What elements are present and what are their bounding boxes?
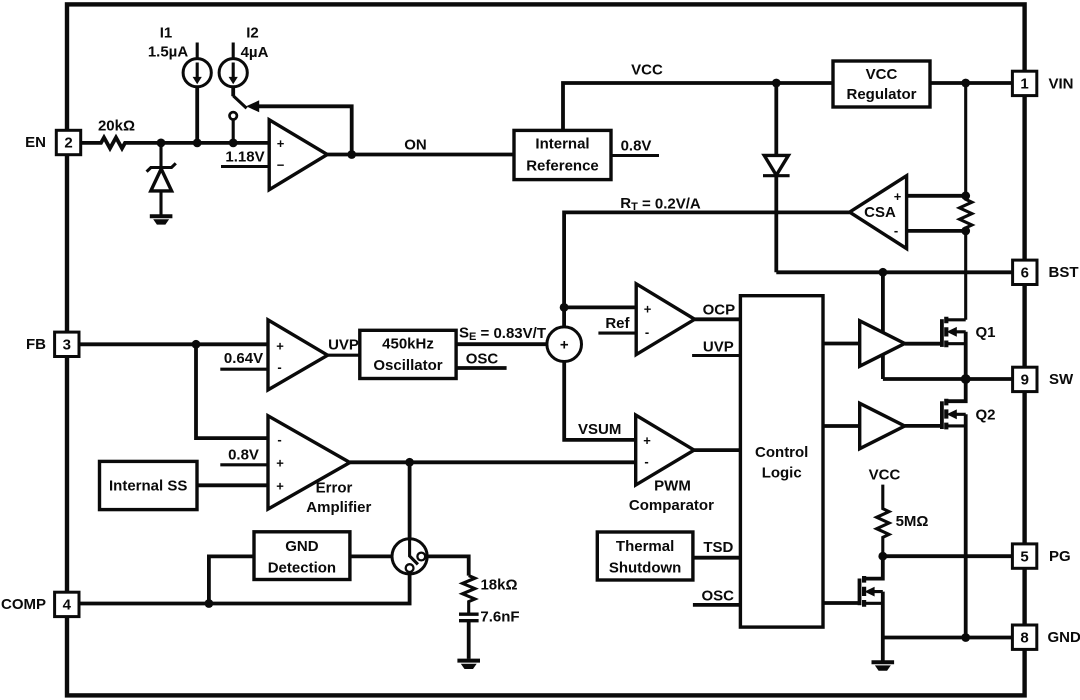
svg-text:-: - [277,360,281,375]
wire: bootstrap BST-SW [881,272,885,379]
svg-text:Regulator: Regulator [846,86,916,103]
node: GND [961,633,970,642]
svg-text:VCC: VCC [869,467,901,484]
svg-text:Logic: Logic [762,465,802,482]
sense resistor and VIN-Q1 drain rail [960,83,972,320]
wire: OCP output [695,317,741,321]
wire: SW rail [883,377,1013,381]
node: COMP branch [405,458,414,467]
Control Logic block [740,296,823,627]
capacitor 7.6nF [459,614,479,621]
node: sense bottom [961,227,970,236]
node: sense branch [961,79,970,88]
svg-text:Shutdown: Shutdown [609,560,681,577]
Thermal Shutdown block [597,532,693,580]
wire: UVP comp to oscillator [328,354,360,357]
svg-text:0.8V: 0.8V [621,138,652,155]
pin 3 FB [55,332,79,356]
svg-text:−: − [277,158,285,173]
svg-text:5: 5 [1020,548,1028,565]
switch (EN hysteresis) [233,96,246,109]
svg-text:+: + [560,336,569,353]
svg-text:EN: EN [25,134,46,151]
wire: comparator feedback [258,106,352,154]
svg-text:+: + [643,433,651,448]
ground (RC) [457,659,480,663]
svg-text:7.6nF: 7.6nF [480,609,519,626]
svg-text:18kΩ: 18kΩ [480,576,517,593]
svg-text:Detection: Detection [268,560,336,577]
wire: to OCP + input [564,305,636,309]
Internal SS block [100,461,198,509]
error amplifier [268,416,350,509]
current source I1 [196,43,199,59]
wire: EN input net [81,138,270,149]
svg-text:SW: SW [1049,371,1074,388]
450kHz Oscillator block [360,330,456,378]
CSA current sense amplifier [850,176,907,249]
svg-text:+: + [894,189,902,204]
wire: error amp output to switch [408,462,412,539]
node: SW [961,374,971,384]
ground (zener) [150,214,173,218]
OCP comparator [636,284,695,355]
svg-text:-: - [644,454,648,469]
svg-text:GND: GND [1048,629,1080,646]
wire: PG rail [883,554,1013,558]
svg-text:4: 4 [63,597,72,614]
svg-text:Reference: Reference [526,158,599,175]
node: bootstrap branch [879,268,888,277]
svg-text:OSC: OSC [701,588,734,605]
svg-text:I1: I1 [160,25,173,42]
arrowhead (hysteresis feedback) [246,100,259,112]
svg-text:BST: BST [1049,264,1079,281]
wire: cap to ground [467,621,471,659]
svg-text:+: + [277,136,285,151]
svg-text:Control: Control [755,444,808,461]
wire: control to driver 1 [823,342,860,346]
svg-text:Error: Error [316,480,353,497]
pin 5 PG [1012,544,1036,568]
svg-text:SE = 0.83V/T: SE = 0.83V/T [459,325,546,343]
gate driver 1 [860,321,905,366]
svg-text:GND: GND [285,538,319,555]
transistor Q3 (PG pulldown) [860,556,883,637]
transistor Q2 [942,379,996,638]
node: comparator output [347,150,356,159]
wire: control to driver 2 [823,424,860,428]
pin 2 EN [56,130,80,154]
svg-text:ON: ON [404,137,427,154]
svg-text:FB: FB [26,336,46,353]
wire: switch to RC [427,556,469,575]
zener diode [159,143,162,167]
node: I2 tap [229,139,238,148]
svg-text:OCP: OCP [703,302,736,319]
svg-text:+: + [276,478,284,493]
wire: OSC into control [693,603,741,607]
svg-text:450kHz: 450kHz [382,336,434,353]
wire: FB to error amp inverting [196,344,268,438]
svg-text:Q2: Q2 [976,407,996,424]
wire: driver 1 to Q1 gate [905,342,942,346]
svg-text:20kΩ: 20kΩ [98,118,135,135]
svg-text:RT = 0.2V/A: RT = 0.2V/A [620,195,701,213]
svg-text:Amplifier: Amplifier [306,499,371,516]
svg-text:9: 9 [1021,372,1029,389]
wire: PWM output [694,448,740,452]
svg-text:0.64V: 0.64V [224,350,263,367]
svg-text:I2: I2 [246,25,259,42]
node: OCP branch [560,303,569,312]
wire: GND detection to switch [350,555,392,559]
node: FB branch [192,340,201,349]
pin 4 COMP [55,592,79,616]
wire: BST rail [776,270,1012,274]
svg-text:1: 1 [1020,76,1028,93]
wire: control to Q3 gate [823,601,860,605]
wire: VCC net [563,83,1013,130]
node: PG [878,552,887,561]
svg-text:5MΩ: 5MΩ [896,513,929,530]
ground (power) [872,660,895,664]
svg-text:Comparator: Comparator [629,497,714,514]
svg-text:PG: PG [1049,548,1071,565]
wire: OSC stub [456,366,507,370]
GND Detection block [254,532,350,580]
svg-text:Q1: Q1 [976,324,996,341]
PWM comparator [636,415,694,485]
svg-text:PWM: PWM [654,478,691,495]
svg-text:+: + [644,302,652,317]
Internal Reference block [514,130,611,179]
wire: TSD [693,556,741,560]
svg-text:Ref: Ref [605,315,630,332]
svg-text:VCC: VCC [866,66,898,83]
wire: 0.8V reference stub [611,154,659,157]
pin 8 GND [1012,625,1036,649]
transistor Q1 [942,317,996,379]
svg-text:1.18V: 1.18V [225,149,264,166]
wire: UVP stub into control [692,354,740,357]
gate driver 2 [860,403,905,448]
svg-text:-: - [277,432,281,447]
UVP comparator [268,320,328,390]
resistor 18kOhm [463,576,475,614]
svg-text:Oscillator: Oscillator [373,357,442,374]
svg-text:6: 6 [1021,265,1029,282]
svg-text:1.5µA: 1.5µA [148,44,188,61]
summing junction [547,327,582,362]
node: COMP branch to GND detection [205,599,214,608]
diode (BST charge) [764,155,788,175]
svg-text:CSA: CSA [864,204,896,221]
svg-text:+: + [276,338,284,353]
svg-text:2: 2 [64,135,72,152]
wire: diode branch vertical [774,83,778,272]
svg-text:TSD: TSD [703,539,733,556]
wire: COMP net [79,574,410,604]
svg-text:4µA: 4µA [241,44,269,61]
switch (COMP clamp) [392,539,427,574]
node: zener tap [157,139,166,148]
wire: to GND detection [209,556,254,603]
svg-text:8: 8 [1020,629,1028,646]
svg-text:Internal SS: Internal SS [109,478,187,495]
wire: FB net [79,342,268,346]
wire: slope ramp to summing [456,342,547,346]
resistor 5MOhm [877,485,889,557]
wire: CSA - input [907,229,966,233]
svg-text:3: 3 [63,337,71,354]
wire: to power ground [881,638,885,661]
wire: CSA + input [907,194,966,198]
svg-text:-: - [645,325,649,340]
svg-text:0.8V: 0.8V [228,446,259,463]
svg-text:VCC: VCC [631,62,663,79]
svg-text:+: + [276,456,284,471]
svg-text:COMP: COMP [1,596,46,613]
svg-text:OSC: OSC [466,351,499,368]
svg-text:VIN: VIN [1049,76,1074,93]
wire: error amp output [350,460,636,464]
wire: CSA output / RT net [564,212,850,327]
node: I1 tap [193,139,202,148]
wire: driver 2 to Q2 gate [905,424,942,428]
VCC Regulator block [833,61,930,107]
svg-text:UVP: UVP [328,337,359,354]
node: sense top [961,191,970,200]
svg-text:UVP: UVP [703,339,734,356]
wire: VSUM [564,362,636,440]
wire: SS to error amp [197,483,268,487]
svg-text:Internal: Internal [535,136,589,153]
svg-text:Thermal: Thermal [616,538,674,555]
pin 6 BST [1013,260,1037,284]
pin 1 VIN [1012,71,1036,95]
wire ON [327,153,514,157]
pin 9 SW [1013,367,1037,391]
svg-text:-: - [894,223,898,238]
current source I2 [232,43,235,59]
wire: GND rail [883,636,1013,640]
svg-text:VSUM: VSUM [578,421,621,438]
node: diode branch [772,79,781,88]
comparator (EN) [269,120,327,190]
